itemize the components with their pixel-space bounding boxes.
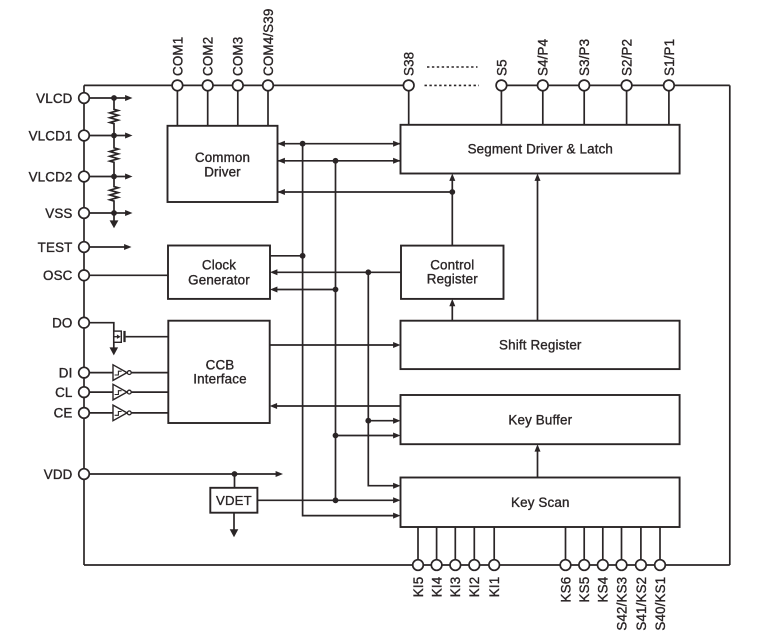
svg-text:S3/P3: S3/P3 (577, 39, 592, 76)
pin OSC (79, 270, 90, 281)
pin S40/KS1 (655, 560, 666, 571)
ground arrow below VDET (233, 513, 235, 530)
pin KI5 (413, 560, 424, 571)
pin KS6 (560, 560, 571, 571)
wire right rail (729, 85, 731, 565)
svg-text:VLCD1: VLCD1 (29, 128, 73, 143)
buffer U-CE (Schmitt input inverter) and wires (90, 412, 114, 414)
wire bottom rail (84, 564, 730, 566)
wire Key Buffer to CCB Interface (276, 405, 400, 407)
wire VLCD stub (84, 97, 114, 99)
svg-text:VSS: VSS (45, 206, 72, 221)
arrow TEST input (90, 246, 126, 248)
svg-text:Key Scan: Key Scan (511, 495, 570, 510)
pin COM4/S39 (263, 80, 274, 91)
arrow VSS bias tap (114, 212, 126, 214)
node VLCD2 junction (111, 174, 117, 180)
node line1 - bus1 junction (300, 141, 306, 147)
node bus3 - Key Buffer tap junction (365, 418, 371, 424)
arrow VLCD1 bias tap (114, 135, 126, 137)
svg-text:KI3: KI3 (448, 577, 463, 598)
wire S2/P2 lead (626, 85, 628, 124)
node VDET line - bus2 junction (333, 497, 339, 503)
svg-text:VDET: VDET (216, 493, 252, 508)
pin KI3 (450, 560, 461, 571)
pin KI4 (431, 560, 442, 571)
wire bus2 to Key Buffer (336, 435, 395, 437)
svg-text:COM4/S39: COM4/S39 (261, 9, 276, 76)
wire S38 lead (408, 85, 410, 124)
resistor R2 (VLCD1-VLCD2) (110, 136, 118, 177)
wire top rail right segment (500, 84, 730, 86)
wire DO to transistor gate (90, 323, 114, 348)
svg-text:VLCD: VLCD (36, 91, 72, 106)
svg-text:OSC: OSC (43, 268, 73, 283)
svg-text:COM1: COM1 (170, 37, 185, 76)
wire COM3 lead (237, 85, 239, 125)
block VDET (210, 488, 257, 513)
pin CL (79, 387, 90, 398)
svg-text:KS4: KS4 (596, 576, 611, 602)
wire Shift Register to Control Register (451, 305, 453, 321)
wire VLCD1 stub (84, 135, 114, 137)
wire bidirectional line Common Driver - Segment Driver (lower) (278, 160, 401, 162)
block Clock Generator (168, 246, 270, 299)
svg-text:S41/KS2: S41/KS2 (634, 577, 649, 631)
wire bus3 to Key Buffer (368, 420, 394, 422)
pin DI (79, 367, 90, 378)
pin KS4 (598, 560, 609, 571)
arrow VLCD bias tap (114, 97, 126, 99)
svg-text:KI4: KI4 (430, 576, 445, 597)
block Shift Register (401, 321, 680, 369)
pin S5 (496, 80, 507, 91)
svg-text:Key Buffer: Key Buffer (508, 412, 572, 427)
wire top rail left segment (84, 84, 410, 86)
node clock out - bus1 junction (300, 253, 306, 259)
svg-text:S42/KS3: S42/KS3 (614, 577, 629, 631)
transistor Q1 gate arrow (114, 336, 117, 338)
svg-text:S1/P1: S1/P1 (662, 39, 677, 76)
svg-text:Segment Driver & Latch: Segment Driver & Latch (468, 142, 613, 157)
svg-text:Control: Control (430, 258, 474, 273)
pin COM1 (172, 80, 183, 91)
node VLCD1 junction (111, 133, 117, 139)
wire bus1 (clock bus) (303, 144, 395, 516)
pin VLCD (79, 93, 90, 104)
wire COM1 lead (176, 85, 178, 125)
node line2 - bus2 junction (333, 158, 339, 164)
buffer U-CL (Schmitt input inverter) and wires (90, 391, 114, 393)
wire VDD supply (90, 473, 277, 475)
svg-text:S2/P2: S2/P2 (620, 39, 635, 76)
wire left pin column (83, 85, 85, 565)
arrow VLCD2 bias tap (114, 176, 126, 178)
wire S41/KS2 lead (640, 527, 642, 565)
wire bus2 (335, 161, 337, 501)
pin S41/KS2 (636, 560, 647, 571)
wire bidirectional line Common Driver - Segment Driver (upper) (278, 143, 401, 145)
wire COM2 lead (207, 85, 209, 125)
wire transistor drain to CCB Interface (126, 336, 169, 338)
wire S40/KS1 lead (659, 527, 661, 565)
pin COM3 (233, 80, 244, 91)
resistor R3 (VLCD2-VSS) (110, 177, 118, 214)
svg-text:KI1: KI1 (487, 577, 502, 598)
wire Control Register to Common Driver (278, 191, 453, 193)
wire VDD to VDET (234, 474, 236, 488)
wire KS5 lead (583, 527, 585, 565)
svg-text:COM3: COM3 (231, 37, 246, 76)
svg-text:Common: Common (195, 150, 250, 165)
svg-text:S40/KS1: S40/KS1 (653, 577, 668, 631)
svg-text:Interface: Interface (193, 371, 246, 386)
wire CCB Interface to Shift Register (270, 344, 395, 346)
node bus2 - Key Buffer tap junction (333, 433, 339, 439)
svg-text:KI5: KI5 (411, 577, 426, 598)
pin TEST (79, 242, 90, 253)
wire bus3 (368, 272, 394, 485)
node line B - bus3 junction (365, 269, 371, 275)
svg-text:S4/P4: S4/P4 (536, 38, 551, 76)
wire Clock Generator output to bus1 (270, 255, 303, 257)
svg-text:KS6: KS6 (558, 577, 573, 603)
pin S42/KS3 (616, 560, 627, 571)
ground arrow below resistor ladder (113, 213, 115, 221)
pin VLCD1 (79, 130, 90, 141)
wire KI4 lead (436, 527, 438, 565)
block Control Register (401, 246, 504, 299)
pin KI1 (489, 560, 500, 571)
pin S1/P1 (664, 80, 675, 91)
block Common Driver (168, 126, 278, 202)
svg-text:S5: S5 (494, 59, 509, 76)
svg-text:COM2: COM2 (201, 37, 216, 76)
svg-text:Generator: Generator (188, 272, 250, 287)
buffer U-DI (Schmitt input inverter) and wires (90, 372, 114, 374)
block Segment Driver & Latch (401, 125, 680, 174)
wire KI2 lead (473, 527, 475, 565)
wire Key Scan to Key Buffer (537, 450, 539, 477)
wire KI5 lead (417, 527, 419, 565)
pin S38 (403, 80, 414, 91)
wire bus2 to Clock Generator (277, 289, 336, 291)
node VSS junction (111, 210, 117, 216)
block Key Buffer (401, 395, 680, 444)
pin KI2 (469, 560, 480, 571)
wire dotted ellipsis between S38 and S5 labels (427, 66, 478, 68)
pin CE (79, 408, 90, 419)
block CCB Interface (168, 321, 269, 423)
svg-text:Shift Register: Shift Register (499, 338, 582, 353)
pin S2/P2 (621, 80, 632, 91)
pin VSS (79, 208, 90, 219)
wire KI3 lead (454, 527, 456, 565)
wire VLCD2 stub (84, 176, 114, 178)
block Key Scan (401, 478, 680, 528)
pin S3/P3 (579, 80, 590, 91)
pin S4/P4 (538, 80, 549, 91)
node bus2 - clock in junction (333, 287, 339, 293)
transistor Q1 (DO open-drain) body (114, 331, 122, 342)
svg-text:KI2: KI2 (467, 577, 482, 598)
wire KS4 lead (602, 527, 604, 565)
wire COM4/S39 lead (267, 85, 269, 125)
node VDD-VDET junction (232, 471, 238, 477)
transistor Q1 gate plate (123, 331, 125, 342)
wire S1/P1 lead (668, 85, 670, 124)
pin KS5 (579, 560, 590, 571)
wire VDET to Key Scan (257, 499, 394, 501)
svg-text:Register: Register (427, 272, 478, 287)
wire KI1 lead (493, 527, 495, 565)
wire S4/P4 lead (542, 85, 544, 124)
node VLCD junction (111, 95, 117, 101)
wire top rail dotted segment (omitted pins S37-S6) (425, 84, 480, 86)
pin VLCD2 (79, 171, 90, 182)
wire Control Register to Segment Driver (vertical) (451, 180, 453, 246)
svg-text:CL: CL (55, 385, 72, 400)
ground arrow below transistor (110, 347, 119, 355)
pin DO (79, 317, 90, 328)
svg-text:S38: S38 (402, 52, 417, 76)
pin VDD (79, 469, 90, 480)
svg-text:KS5: KS5 (577, 577, 592, 603)
svg-text:Driver: Driver (204, 165, 241, 180)
resistor R1 (VLCD-VLCD1) (110, 98, 118, 136)
svg-text:TEST: TEST (38, 240, 73, 255)
svg-text:Clock: Clock (202, 258, 236, 273)
wire KS6 lead (565, 527, 567, 565)
svg-text:VLCD2: VLCD2 (29, 169, 73, 184)
svg-text:DO: DO (52, 316, 72, 331)
pin COM2 (202, 80, 213, 91)
svg-text:CE: CE (54, 406, 73, 421)
node line3 - control vertical junction (449, 189, 455, 195)
wire OSC to Clock Generator (90, 274, 169, 276)
wire Control Register to Clock Generator (277, 271, 401, 273)
wire VSS stub (84, 212, 114, 214)
svg-text:VDD: VDD (44, 467, 73, 482)
svg-text:DI: DI (59, 365, 73, 380)
wire S5 lead (500, 85, 502, 124)
wire S42/KS3 lead (621, 527, 623, 565)
wire S3/P3 lead (583, 85, 585, 124)
wire Shift Register to Segment Driver (537, 180, 539, 321)
svg-text:CCB: CCB (206, 357, 235, 372)
